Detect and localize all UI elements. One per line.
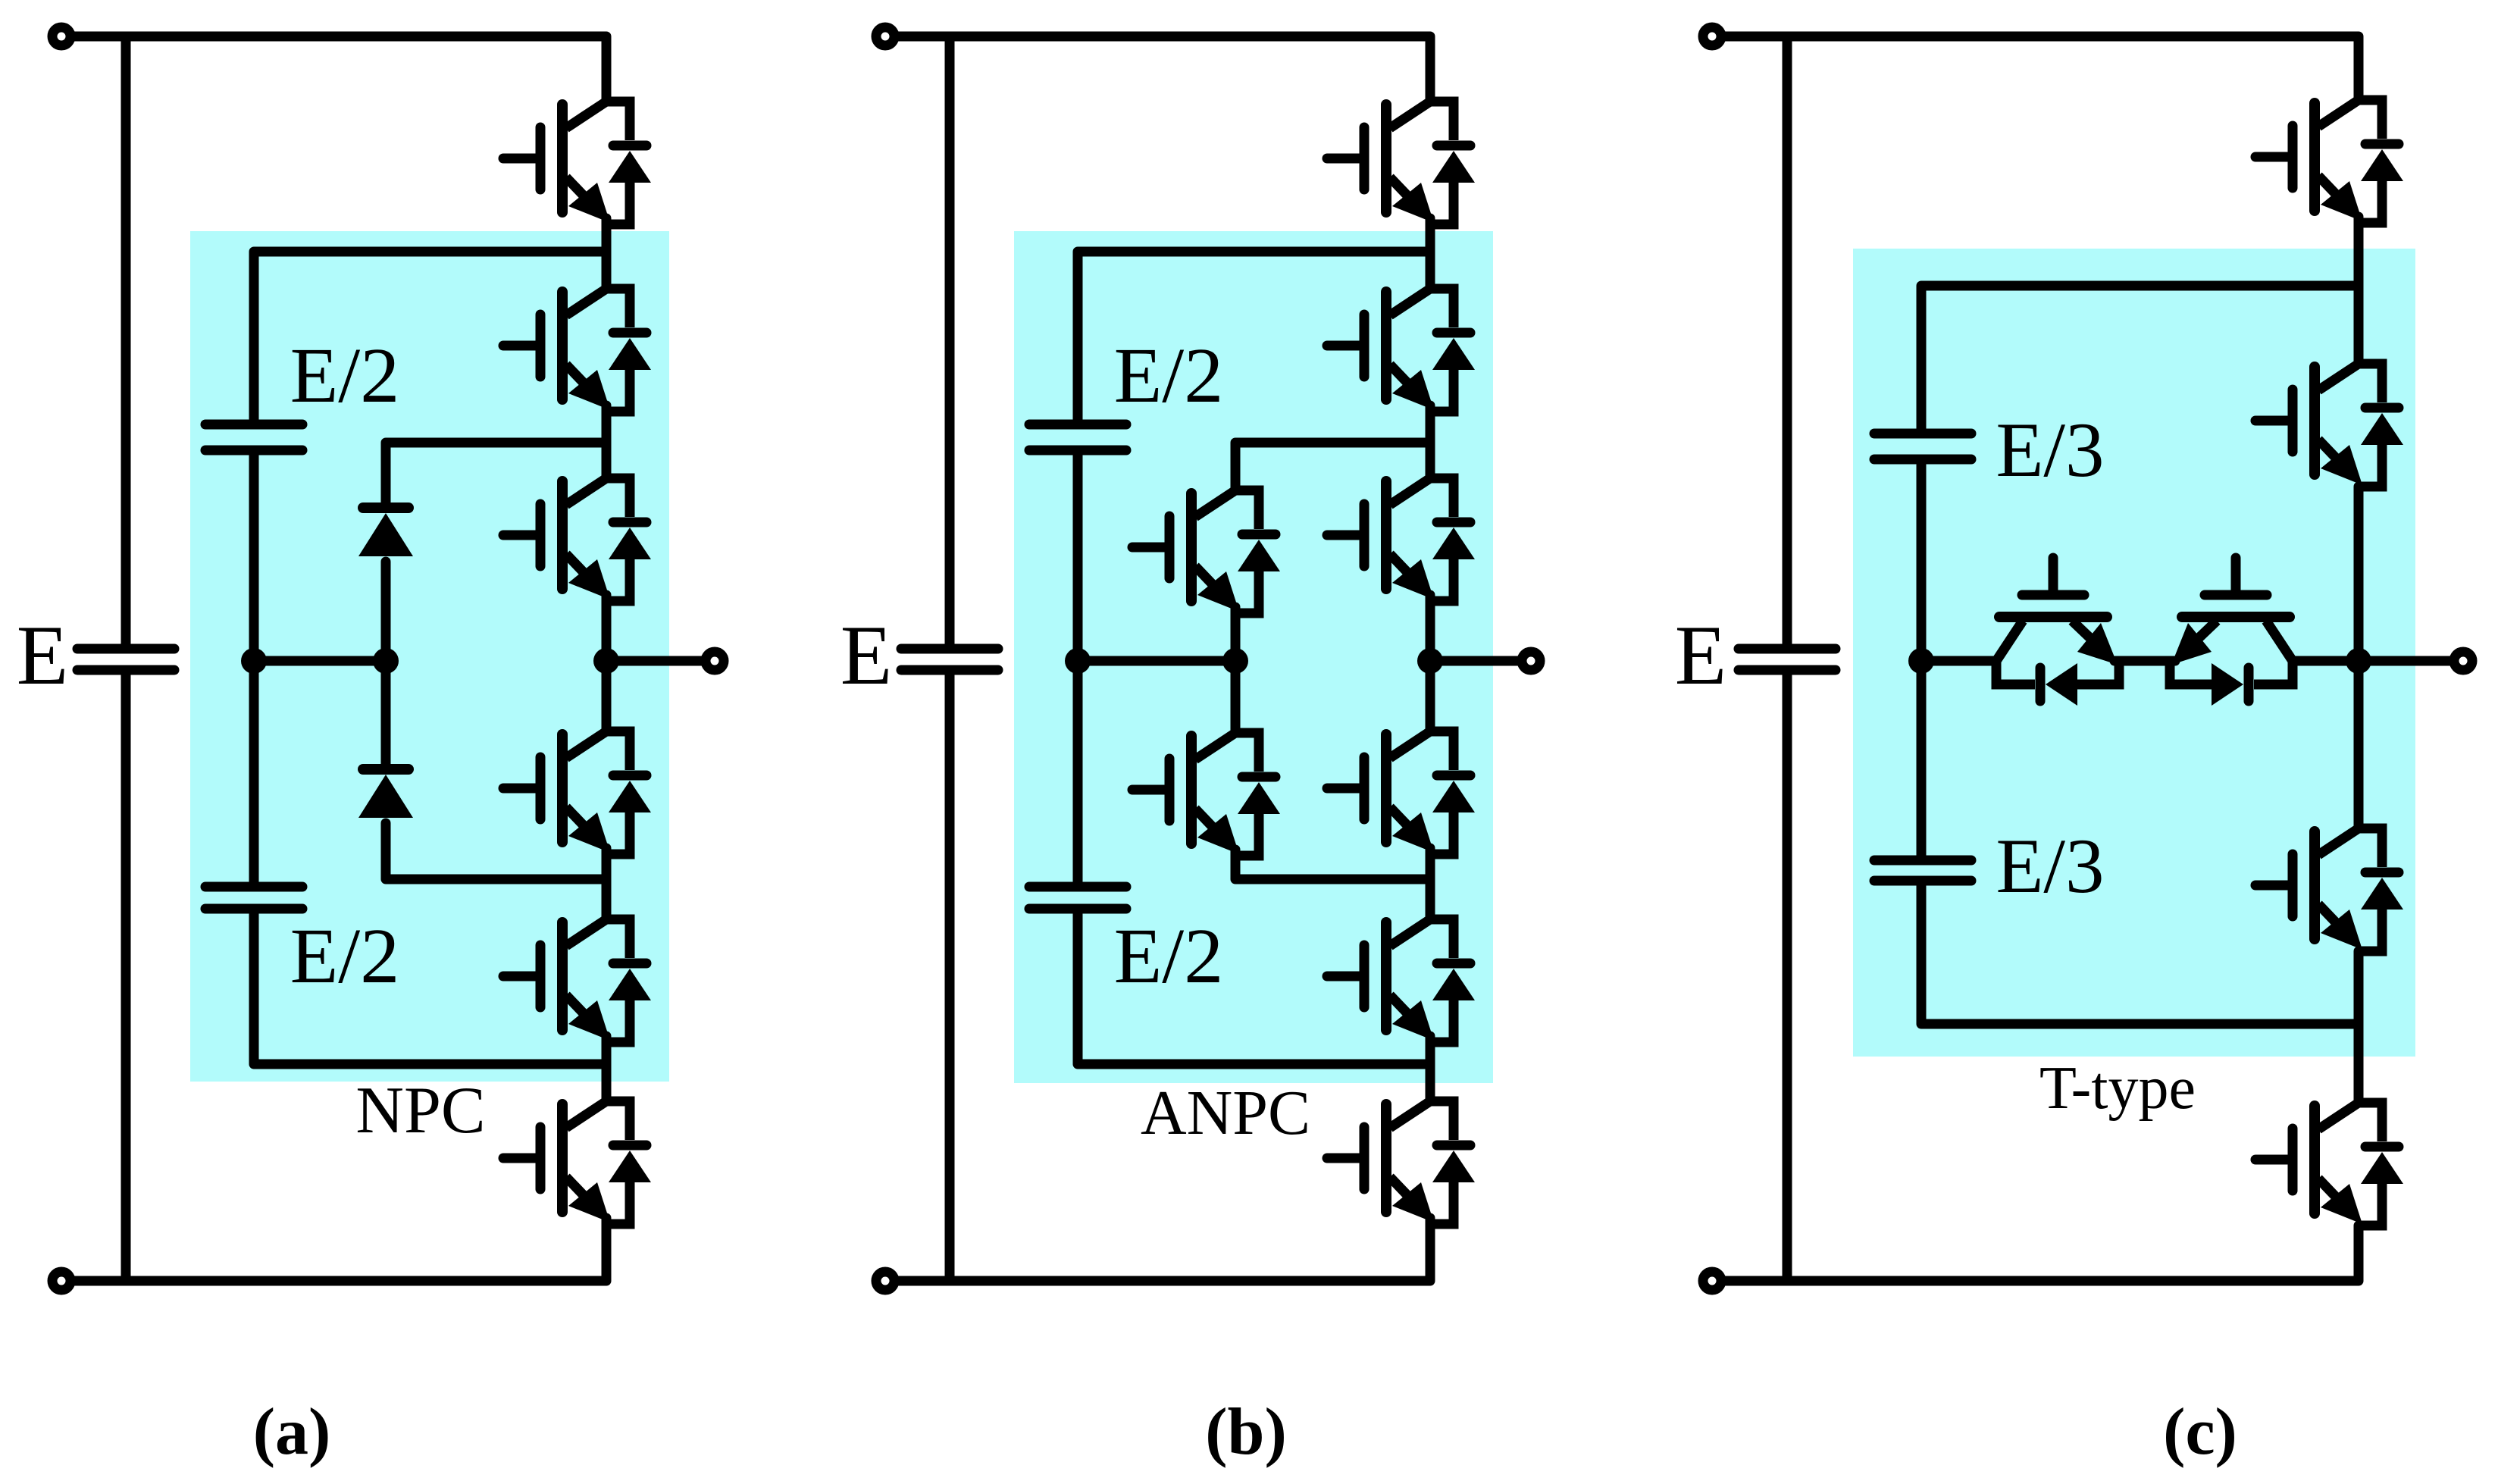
wire: string segment Q1-Q2 (c) <box>2354 217 2364 364</box>
wire: string segment Q2-Q3 (b) <box>1426 405 1435 478</box>
wire: QC2 collector from neutral (b) <box>1231 661 1241 733</box>
wire: inner left rail middle (a) <box>249 455 259 881</box>
node: output node on string (a) <box>593 648 619 674</box>
node: output node on string (b) <box>1417 648 1443 674</box>
terminal: AC output (b) <box>1522 652 1540 670</box>
wire: top DC rail (c) <box>1723 36 2359 100</box>
wire: string segment Q2-output (c) <box>2354 487 2364 661</box>
wire: bottom DC rail (a) <box>73 1218 606 1281</box>
svg-text:E: E <box>17 609 68 703</box>
IGBT Q3 (a) <box>503 478 651 601</box>
IGBT Q5 (b) <box>1327 919 1475 1042</box>
node: neutral at capacitor midpoint (c) <box>1908 648 1934 674</box>
wire: D1 anode to neutral (a) <box>381 562 391 661</box>
capacitor E/3 upper (c) <box>1874 434 1971 459</box>
wire: output wire (b) <box>1430 656 1520 666</box>
svg-text:E/2: E/2 <box>290 332 399 419</box>
IGBT Q2 (a) <box>503 289 651 412</box>
wire: neutral to bidirectional switch (c) <box>1921 656 1996 666</box>
wire: string segment Q3-Q4 (b) <box>1426 595 1435 731</box>
wire: inner top wire to neutral branch (b) <box>1078 252 1430 419</box>
clamp diode D1 (a) <box>358 508 413 556</box>
wire: clamp bottom wire to string (a) <box>386 823 606 879</box>
svg-text:E/2: E/2 <box>1114 332 1223 419</box>
terminal: DC- (a) <box>52 1272 70 1290</box>
clamp IGBT QC2 (b) <box>1132 733 1280 856</box>
wire: inner top wire to neutral branch (c) <box>1921 286 2359 429</box>
wire: bidirectional switch to string (c) <box>2293 656 2359 666</box>
IGBT Q2 (c) inner upper <box>2255 364 2403 487</box>
capacitor E (c) <box>1739 649 1836 670</box>
wire: inner bottom wire (c) <box>1921 885 2359 1024</box>
wire: neutral mid wire (a) <box>254 656 386 666</box>
svg-text:E/3: E/3 <box>1996 823 2104 909</box>
svg-text:E/2: E/2 <box>290 913 399 1000</box>
wire: left DC rail upper (b) <box>945 36 955 644</box>
svg-text:E: E <box>1675 609 1726 703</box>
wire: string segment Q4-Q5 (a) <box>602 848 612 919</box>
svg-text:(b): (b) <box>1205 1395 1287 1469</box>
T-type cell highlight box <box>1853 249 2415 1057</box>
capacitor E/2 upper (a) <box>205 424 302 450</box>
svg-text:E/3: E/3 <box>1996 407 2104 493</box>
wire: string segment Q2-Q3 (a) <box>602 405 612 478</box>
wire: top DC rail (a) <box>73 36 606 102</box>
svg-text:E/2: E/2 <box>1114 913 1223 1000</box>
capacitor E/2 lower (a) <box>205 887 302 909</box>
capacitor E (b) <box>901 649 998 670</box>
wire: left DC rail upper (a) <box>121 36 131 644</box>
wire: inner left rail middle (c) <box>1917 464 1927 856</box>
wire: left DC rail lower (a) <box>121 675 131 1281</box>
IGBT Q3 (b) <box>1327 478 1475 601</box>
capacitor E (a) <box>77 649 174 670</box>
wire: string segment Q3-Q4 (c) <box>2354 951 2364 1103</box>
IGBT QT1 (c) bidirectional left <box>1996 558 2119 706</box>
wire: output wire (c) <box>2359 656 2452 666</box>
NPC cell highlight box <box>190 231 669 1082</box>
wire: left DC rail lower (b) <box>945 675 955 1281</box>
node: output node on string (c) <box>2346 648 2371 674</box>
capacitor E/2 upper (b) <box>1029 424 1126 450</box>
wire: clamp bottom wire to string (b) <box>1235 850 1430 879</box>
wire: string segment Q3-Q4 (a) <box>602 595 612 731</box>
terminal: AC output (c) <box>2454 652 2472 670</box>
wire: left DC rail upper (c) <box>1783 36 1792 644</box>
wire: common emitter link (c) <box>2115 656 2175 666</box>
terminal: DC+ (c) <box>1703 27 1721 45</box>
wire: output wire (a) <box>606 656 703 666</box>
wire: string segment Q1-Q2 (a) <box>602 218 612 289</box>
ANPC cell highlight box <box>1014 231 1493 1083</box>
wire: inner top wire to neutral branch (a) <box>254 252 606 419</box>
wire: inner bottom wire (b) <box>1078 914 1430 1064</box>
IGBT Q5 (a) <box>503 919 651 1042</box>
wire: inner bottom wire (a) <box>254 914 606 1064</box>
wire: string segment Q1-Q2 (b) <box>1426 218 1435 289</box>
IGBT Q1 (a) outer top <box>503 102 651 224</box>
svg-text:NPC: NPC <box>355 1074 485 1147</box>
wire: top DC rail (b) <box>897 36 1430 102</box>
terminal: DC- (c) <box>1703 1272 1721 1290</box>
IGBT Q4 (c) outer bottom <box>2255 1103 2403 1226</box>
svg-text:(c): (c) <box>2163 1395 2237 1469</box>
node: neutral at capacitor midpoint (b) <box>1065 648 1091 674</box>
terminal: DC+ (a) <box>52 27 70 45</box>
wire: bottom DC rail (b) <box>897 1218 1430 1281</box>
capacitor E/3 lower (c) <box>1874 860 1971 881</box>
svg-text:T-type: T-type <box>2039 1055 2196 1122</box>
wire: QC1 emitter to neutral (b) <box>1231 607 1241 661</box>
svg-text:ANPC: ANPC <box>1141 1078 1310 1148</box>
clamp IGBT QC1 (b) <box>1132 490 1280 613</box>
IGBT QT2 (c) bidirectional right <box>2170 558 2293 706</box>
clamp diode D2 (a) <box>358 769 413 818</box>
wire: inner left rail middle (b) <box>1073 455 1083 881</box>
node: clamp midpoint (b) <box>1222 648 1248 674</box>
wire: string segment Q5-Q6 (b) <box>1426 1036 1435 1101</box>
terminal: DC+ (b) <box>876 27 894 45</box>
svg-text:(a): (a) <box>253 1395 331 1469</box>
IGBT Q6 (b) outer bottom <box>1327 1101 1475 1224</box>
IGBT Q6 (a) outer bottom <box>503 1101 651 1224</box>
wire: clamp top wire to string (a) <box>386 443 606 502</box>
node: clamp diode midpoint (a) <box>373 648 399 674</box>
wire: string segment Q5-Q6 (a) <box>602 1036 612 1101</box>
terminal: AC output (a) <box>706 652 724 670</box>
capacitor E/2 lower (b) <box>1029 887 1126 909</box>
wire: string segment Q4-Q5 (b) <box>1426 848 1435 919</box>
wire: left DC rail lower (c) <box>1783 675 1792 1281</box>
IGBT Q1 (c) outer top <box>2255 100 2403 223</box>
svg-text:E: E <box>840 609 892 703</box>
node: neutral at capacitor midpoint (a) <box>241 648 267 674</box>
IGBT Q3 (c) inner lower <box>2255 828 2403 951</box>
IGBT Q1 (b) outer top <box>1327 102 1475 224</box>
wire: neutral mid wire (b) <box>1078 656 1235 666</box>
IGBT Q2 (b) <box>1327 289 1475 412</box>
wire: bottom DC rail (c) <box>1723 1226 2359 1281</box>
wire: string segment output-Q3 (c) <box>2354 661 2364 828</box>
IGBT Q4 (a) <box>503 731 651 854</box>
terminal: DC- (b) <box>876 1272 894 1290</box>
wire: D2 cathode from neutral (a) <box>381 661 391 764</box>
wire: clamp top wire to string (b) <box>1235 443 1430 490</box>
IGBT Q4 (b) <box>1327 731 1475 854</box>
